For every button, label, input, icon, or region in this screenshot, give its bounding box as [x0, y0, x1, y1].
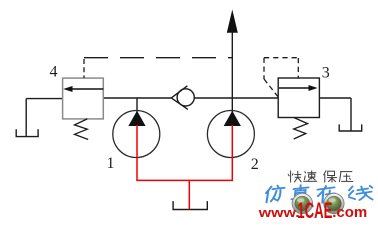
svg-text:www.: www. [258, 207, 300, 221]
svg-text:1CAE: 1CAE [297, 199, 332, 221]
svg-text:.com: .com [332, 204, 367, 221]
svg-text:4: 4 [50, 64, 58, 81]
svg-text:1: 1 [107, 155, 115, 172]
svg-text:3: 3 [322, 65, 330, 82]
svg-text:2: 2 [251, 156, 259, 173]
